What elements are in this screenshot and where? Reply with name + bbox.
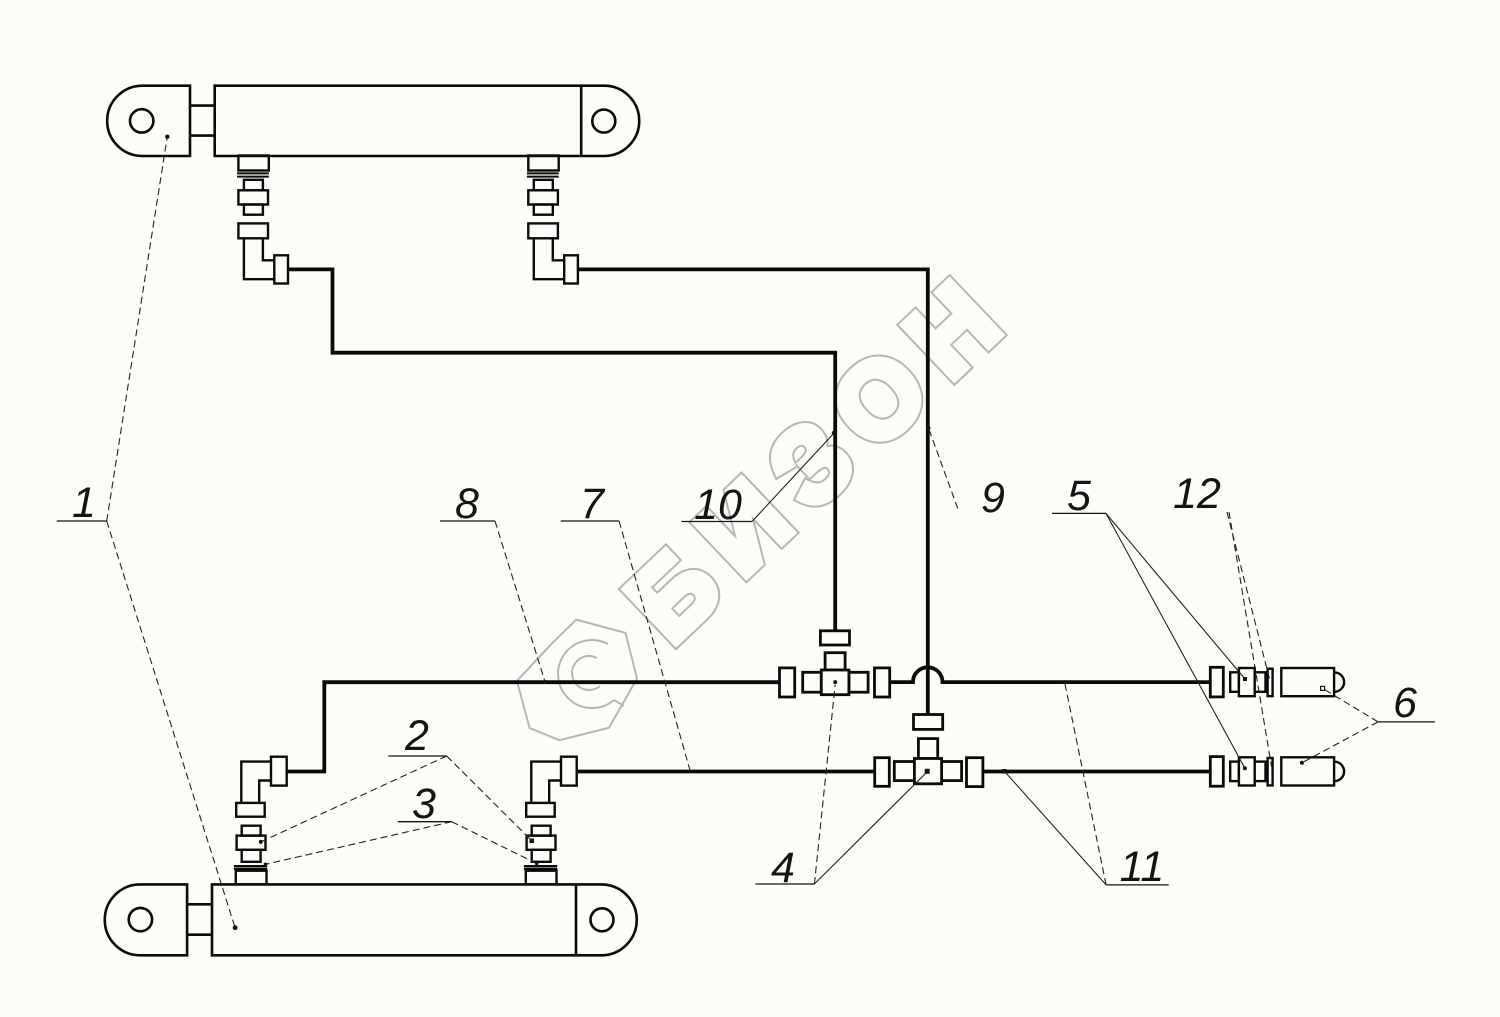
svg-text:2: 2 <box>404 712 429 760</box>
svg-text:1: 1 <box>72 479 96 527</box>
svg-text:3: 3 <box>412 780 436 828</box>
svg-text:6: 6 <box>1393 679 1417 727</box>
svg-text:9: 9 <box>981 474 1005 522</box>
svg-text:4: 4 <box>771 844 795 892</box>
svg-text:12: 12 <box>1173 470 1221 518</box>
svg-text:11: 11 <box>1120 843 1165 891</box>
